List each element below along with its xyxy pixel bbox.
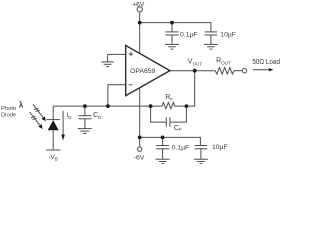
svg-text:-6V: -6V: [134, 154, 145, 161]
wire noninverting input: [108, 53, 126, 55]
junction node inverting tap: [106, 104, 110, 108]
junction node V- rail: [138, 136, 142, 140]
ground top cap1: [165, 43, 179, 45]
capacitor 0.1uF bottom bypass: [162, 137, 164, 145]
ground bottom cap1: [156, 158, 170, 160]
wire photodiode anode to -VB: [52, 130, 54, 149]
svg-text:10µF: 10µF: [212, 144, 228, 151]
junction node V+ rail: [138, 21, 142, 25]
capacitor 0.1uF top bypass: [166, 31, 179, 33]
terminal circle -6V: [138, 147, 142, 151]
photodiode cathode bar: [47, 119, 60, 121]
capacitor CD: [78, 115, 91, 117]
ID arrowhead: [61, 135, 65, 141]
load arrow line: [253, 69, 269, 71]
wire +6V vertical to op-amp V+ pin: [139, 12, 141, 53]
wire inverting input: [108, 85, 126, 106]
wire VOUT row: [170, 70, 215, 72]
ground bottom cap2: [194, 158, 208, 160]
lambda arrowhead 2: [38, 124, 43, 129]
svg-text:λ: λ: [19, 101, 24, 110]
junction node CD: [83, 104, 87, 108]
wire -6V terminal stem: [139, 137, 141, 147]
junction node VOUT: [193, 69, 197, 73]
capacitor 10uF top bypass: [205, 31, 217, 33]
lambda arrowhead 1: [41, 116, 46, 121]
photodiode D1 triangle: [48, 120, 59, 130]
op-amp minus sign: [129, 84, 133, 86]
load arrowhead: [269, 68, 274, 71]
capacitor CF plates: [165, 117, 167, 127]
capacitor CF left stub: [151, 106, 167, 122]
svg-text:Diode: Diode: [1, 112, 16, 118]
svg-text:+6V: +6V: [132, 1, 145, 8]
junction node bottom cap1: [161, 136, 165, 140]
-VB terminal bar: [46, 149, 60, 151]
wire photodiode cathode: [52, 106, 54, 120]
svg-text:50Ω Load: 50Ω Load: [252, 59, 280, 66]
wire ROUT to load terminal: [234, 70, 242, 72]
ground noninverting input: [107, 54, 109, 61]
wire summing node row: [53, 105, 161, 107]
junction node cap1 top: [170, 21, 174, 25]
resistor RF: [161, 102, 176, 108]
ID current arrow line: [62, 111, 64, 135]
terminal circle 50ohm load: [242, 69, 246, 73]
ground top cap2: [204, 43, 218, 45]
wire RF to VOUT branch: [176, 71, 195, 106]
op-amp U1 OPA659 triangle: [126, 45, 170, 95]
svg-text:0.1µF: 0.1µF: [172, 144, 190, 151]
junction node CF left: [149, 104, 153, 108]
svg-text:10µF: 10µF: [220, 31, 236, 38]
capacitor CF right stub: [170, 106, 187, 122]
wire top supply rail: [140, 23, 211, 32]
svg-text:0.1µF: 0.1µF: [180, 31, 198, 38]
junction node CF right: [185, 104, 189, 108]
capacitor CD stem: [84, 106, 86, 116]
lambda light arrow 1 line: [33, 104, 43, 117]
ground CD: [78, 128, 92, 130]
svg-text:OPA659: OPA659: [130, 68, 155, 75]
op-amp plus sign: [129, 52, 133, 56]
wire negative supply rail: [140, 137, 201, 145]
wire cap C1 stem: [171, 23, 173, 32]
svg-text:Photo: Photo: [1, 106, 16, 112]
capacitor 10uF bottom bypass: [195, 145, 208, 147]
terminal circle +6V: [137, 7, 142, 12]
lambda light arrow 2 line: [30, 112, 40, 125]
wire op-amp V- pin: [139, 88, 141, 138]
resistor ROUT: [214, 68, 234, 75]
